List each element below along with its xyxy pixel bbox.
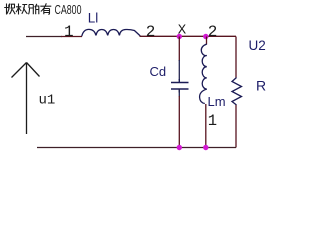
svg-text:2: 2	[146, 23, 156, 41]
junction dot node 2 bottom	[203, 145, 208, 150]
所	[29, 4, 40, 15]
wire resistor R to bottom rail	[235, 105, 237, 148]
wire top from source to inductor L1	[61, 36, 82, 38]
wire right column top (corner to resistor R)	[235, 37, 237, 78]
resistor R (zigzag)	[232, 78, 242, 106]
wire from L1 to node X and node 2 and corner	[140, 35, 237, 37]
有	[40, 3, 51, 14]
svg-text:1: 1	[64, 23, 74, 41]
inductor L1 (horizontal coil)	[82, 29, 140, 36]
svg-text:R: R	[256, 78, 266, 94]
copyright text 版权所有 (drawn strokes)	[4, 3, 51, 14]
bottom rail wire	[37, 147, 236, 149]
svg-text:u1: u1	[39, 92, 56, 108]
svg-text:Lm: Lm	[208, 94, 226, 109]
wire inductor Lm to bottom rail	[205, 104, 207, 147]
svg-text:1: 1	[208, 112, 217, 130]
junction dot node X top	[177, 34, 182, 39]
版	[4, 4, 15, 15]
权	[16, 4, 27, 15]
svg-text:2: 2	[208, 23, 218, 41]
wire capacitor Cd to bottom rail	[178, 89, 180, 97]
capacitor Cd (plates)	[171, 79, 189, 93]
inductor Lm (vertical coil)	[200, 44, 207, 104]
junction dot node 2 top	[203, 34, 208, 39]
wire node X down to capacitor Cd	[178, 37, 180, 62]
wire node 2 down to inductor Lm	[206, 37, 208, 45]
svg-text:Cd: Cd	[150, 64, 167, 79]
wire top-left segment (source pin)	[26, 36, 62, 38]
svg-text:U2: U2	[249, 38, 266, 53]
svg-text:CA800: CA800	[55, 3, 82, 17]
junction dot node X bottom	[177, 145, 182, 150]
source u1 arrow	[12, 63, 40, 135]
svg-text:Ll: Ll	[88, 11, 99, 26]
